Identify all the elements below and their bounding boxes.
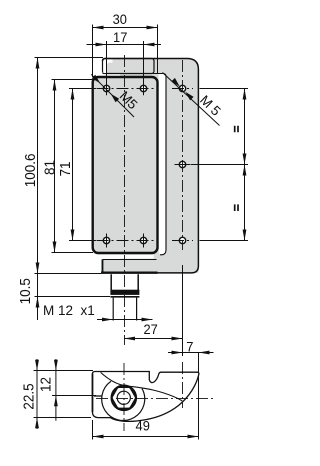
plate hole top <box>179 85 185 91</box>
centerline hole row 1 <box>97 88 157 90</box>
svg-text:27: 27 <box>143 322 157 338</box>
dimension 17 <box>87 30 162 82</box>
svg-text:30: 30 <box>113 12 127 28</box>
leader M5 left <box>91 74 140 117</box>
svg-text:49: 49 <box>136 418 150 434</box>
centerline sensor vertical axis <box>124 55 126 345</box>
equal sign upper <box>235 126 238 132</box>
M12 thread walls <box>113 298 136 321</box>
bottom view hook inner edge <box>101 372 183 401</box>
plate top bar bottom edge <box>103 74 167 77</box>
bottom view inner circle <box>117 391 130 404</box>
M12 connector band lip <box>110 296 139 298</box>
plate hole middle <box>175 161 191 167</box>
svg-text:71: 71 <box>57 161 74 176</box>
dimension 81 <box>42 80 96 253</box>
dimension 71 <box>57 89 96 241</box>
dimension 30 <box>93 12 158 77</box>
M12 connector neck <box>111 274 138 290</box>
sensor tab <box>103 59 155 74</box>
svg-text:12: 12 <box>38 377 55 392</box>
sensor bottom thick edge <box>101 272 158 274</box>
bottom view horizontal centerline <box>96 398 215 400</box>
sensor foot outline <box>103 260 105 273</box>
plate hole bottom <box>179 237 185 243</box>
bottom view left edge emphasis <box>92 374 94 413</box>
centerline plate hole bottom horizontal <box>172 240 193 242</box>
svg-text:100.6: 100.6 <box>22 153 39 187</box>
bottom view split line <box>94 395 102 397</box>
svg-text:7: 7 <box>186 339 193 355</box>
svg-text:10.5: 10.5 <box>17 278 34 304</box>
equal sign lower <box>235 204 238 211</box>
white strip between sensor bottom and foot <box>100 255 154 259</box>
dimension 10.5 <box>17 278 110 307</box>
centerline plate hole column <box>182 60 184 250</box>
sensor body thick outline <box>93 77 158 253</box>
sensor body fill <box>92 76 159 255</box>
sensor foot fill <box>101 259 157 273</box>
plate outline top/right <box>103 59 199 273</box>
centerline plate hole top horizontal <box>172 88 193 90</box>
svg-text:M 12 x1: M 12 x1 <box>43 303 95 318</box>
hole top-right M5 <box>140 82 146 96</box>
centerline hole row 2 <box>97 240 157 242</box>
bottom view outline <box>92 372 198 422</box>
M12 connector knurl band <box>110 290 139 295</box>
dimension 12 <box>38 359 96 421</box>
svg-text:22.5: 22.5 <box>21 383 38 409</box>
hole top-left M5 <box>103 82 109 96</box>
svg-text:M 5: M 5 <box>197 92 224 118</box>
hole bottom-left <box>103 234 109 248</box>
svg-text:17: 17 <box>113 30 127 46</box>
bottom view hole axis centerline <box>182 362 184 408</box>
mounting plate silhouette <box>103 59 199 273</box>
white gap between sensor and plate column <box>159 74 166 255</box>
leader M5 right <box>163 73 224 126</box>
dimension 49 <box>93 418 199 439</box>
dimension 27 <box>124 265 183 356</box>
hole bottom-right <box>140 234 146 248</box>
bottom view boss outer arc <box>102 381 145 420</box>
dimension 22.5 <box>21 359 93 429</box>
bottom view gland circle <box>112 386 136 410</box>
bottom view vertical centerline <box>123 363 125 431</box>
label M 12 x1 with leader <box>43 303 153 321</box>
white margin inside tab corner <box>103 59 112 73</box>
plate column left edge and gap floor <box>160 77 166 255</box>
dimension equal spacing right <box>191 89 248 241</box>
dimension 100.6 <box>22 58 103 321</box>
dimension 7 <box>168 339 214 439</box>
bottom view hex nut <box>112 387 136 408</box>
